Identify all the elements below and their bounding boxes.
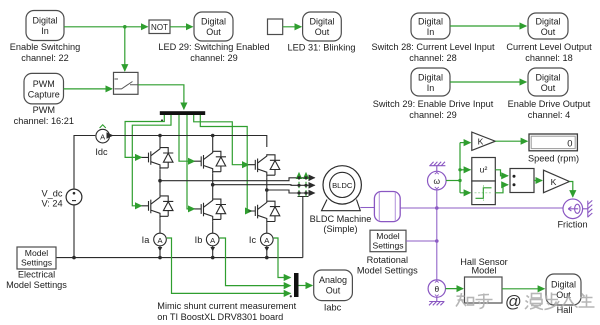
bus bar (gate demux)	[160, 111, 205, 115]
shaft vertical to theta sensor	[436, 190, 438, 280]
label Current Level Output	[506, 42, 592, 63]
sensor theta	[428, 280, 445, 297]
friction element	[563, 199, 583, 219]
svg-text:Settings: Settings	[21, 258, 52, 268]
wire u^2 to mux2	[495, 170, 508, 176]
wire Ib to mux	[220, 238, 291, 286]
svg-text:Digital: Digital	[551, 280, 576, 290]
svg-text:0: 0	[567, 137, 572, 148]
svg-text:In: In	[427, 27, 435, 37]
block Digital Out (LED 31)	[303, 12, 342, 41]
block NOT U1	[149, 20, 170, 34]
svg-text:Out: Out	[541, 27, 556, 37]
label Enable Drive Output	[508, 99, 591, 120]
node rail legA legB legC	[158, 256, 162, 260]
svg-text:Out: Out	[326, 286, 341, 296]
wire Ic to mux	[274, 238, 291, 278]
wire model settings to shaft	[406, 240, 437, 242]
svg-text:In: In	[427, 83, 435, 93]
block Digital In (Switch 28)	[411, 13, 450, 39]
node shaft theta branch	[435, 239, 439, 243]
port arrow Idc output	[111, 135, 113, 137]
svg-text:Digital: Digital	[32, 16, 57, 26]
svg-text:Model Settings: Model Settings	[6, 280, 67, 290]
transistor Q6	[248, 201, 280, 224]
svg-text:Friction: Friction	[557, 220, 587, 230]
block PWM Capture	[24, 73, 64, 104]
annotation dot near mux	[290, 295, 292, 297]
wire mux2 to gain K2	[534, 180, 542, 182]
BLDC machine body	[323, 166, 361, 204]
block Digital Out (Enable Drive)	[528, 68, 568, 96]
node phase taps	[158, 179, 162, 183]
DC top rail	[74, 136, 267, 190]
svg-text:V_dc: V_dc	[42, 189, 63, 199]
svg-text:K: K	[478, 137, 484, 147]
sensor omega	[428, 171, 447, 190]
svg-text:Out: Out	[541, 83, 556, 93]
ammeter Ib	[206, 233, 219, 246]
gain K2	[544, 170, 570, 193]
svg-text:BLDC Machine: BLDC Machine	[310, 214, 372, 224]
svg-text:Idc: Idc	[95, 147, 108, 157]
svg-text:Digital: Digital	[418, 17, 443, 27]
svg-text:channel: 22: channel: 22	[21, 53, 69, 63]
block Digital In (Switch 29)	[411, 68, 450, 96]
wire Switch28 in to out	[450, 25, 526, 27]
svg-text:Switch 29: Enable Drive Input: Switch 29: Enable Drive Input	[373, 99, 494, 109]
mechanical reference below theta	[429, 297, 444, 305]
svg-text:Rotational: Rotational	[367, 255, 408, 265]
block constant (blink source)	[268, 19, 283, 35]
svg-text:Ia: Ia	[142, 235, 151, 245]
svg-text:Analog: Analog	[319, 275, 347, 285]
wire Ia to mux	[167, 238, 291, 293]
svg-text:(Simple): (Simple)	[323, 224, 357, 234]
svg-text:Hall: Hall	[557, 305, 573, 315]
svg-text:θ: θ	[434, 284, 439, 294]
svg-text:channel: 4: channel: 4	[528, 110, 570, 120]
wire V_dc bottom to rail	[73, 205, 75, 258]
svg-text:Digital: Digital	[418, 73, 443, 83]
annotation dot near bus	[161, 119, 163, 121]
svg-text:channel: 16:21: channel: 16:21	[14, 116, 74, 126]
block Digital Out (LED 29)	[194, 12, 233, 41]
svg-text:BLDC: BLDC	[332, 181, 353, 190]
node shaft omega	[435, 206, 439, 210]
rotor inertia cylinder	[374, 192, 400, 222]
svg-text:PWM: PWM	[33, 105, 55, 115]
svg-text:LED 29: Switching Enabled: LED 29: Switching Enabled	[158, 42, 269, 52]
svg-text:Digital: Digital	[201, 17, 226, 27]
block Analog Out	[314, 270, 353, 301]
label BLDC Machine (Simple)	[310, 214, 372, 234]
mechanical reference above omega	[429, 162, 445, 172]
leg C vertical wires	[266, 177, 268, 258]
svg-text:channel: 28: channel: 28	[409, 53, 457, 63]
ammeter Ic	[261, 233, 274, 246]
svg-text:Model: Model	[471, 265, 496, 275]
junction on wire	[123, 25, 127, 29]
block u^2	[472, 158, 496, 182]
node top rail leg2	[211, 134, 215, 138]
svg-text:Settings: Settings	[372, 241, 403, 251]
svg-text:K: K	[551, 177, 557, 187]
label Switch 29	[373, 99, 494, 120]
svg-text:channel: 29: channel: 29	[409, 110, 457, 120]
label Hall Sensor Model	[460, 257, 508, 275]
svg-text:PWM: PWM	[33, 79, 55, 89]
label Enable Switching channel: 22	[10, 42, 80, 63]
svg-text:Ic: Ic	[249, 235, 257, 245]
block Digital Out (Current Level)	[528, 13, 568, 39]
label Mimic shunt	[157, 301, 296, 322]
phase line C	[267, 190, 315, 193]
transistor Q4	[142, 195, 174, 218]
phase line B	[213, 184, 315, 187]
wire quantizer to mux2	[495, 185, 508, 193]
wire gate 2 (bus to Q4 gate)	[132, 115, 171, 206]
transistor Q2	[194, 151, 226, 174]
wire K to speed display	[495, 140, 527, 142]
wire junction down to switch	[124, 27, 126, 71]
svg-text:Speed (rpm): Speed (rpm)	[528, 154, 579, 164]
transistor Q1	[142, 147, 174, 170]
transistor Q5	[194, 199, 226, 222]
svg-text:Model: Model	[25, 248, 48, 258]
sense tap dashed lines	[299, 175, 306, 197]
wire Switch29 in to out	[450, 81, 526, 83]
wire gate 1 (bus to Q1 gate)	[125, 115, 164, 157]
node model settings junction	[72, 256, 76, 260]
label LED 29	[158, 42, 269, 63]
label PWM channel	[14, 105, 74, 126]
svg-text:Electrical: Electrical	[18, 270, 55, 280]
transistor Q3	[248, 154, 280, 177]
block Digital In (Enable Switching)	[26, 11, 64, 41]
label Electrical Model Settings	[6, 270, 67, 291]
block mux2 (two-dot)	[510, 169, 534, 193]
svg-text:Ib: Ib	[195, 235, 203, 245]
block Model Settings electrical	[17, 247, 56, 269]
gain K rpm	[472, 132, 496, 150]
block Model Settings rotational	[370, 230, 406, 252]
svg-text:Current Level Output: Current Level Output	[506, 42, 592, 52]
phase line A	[160, 178, 315, 181]
node top rail leg1	[158, 134, 162, 138]
svg-text:V: 24: V: 24	[41, 199, 62, 209]
svg-text:u²: u²	[480, 165, 488, 175]
block Digital Out (Hall)	[546, 274, 581, 305]
wire hall model to digital out	[502, 288, 544, 290]
wire theta to hall model	[446, 288, 464, 290]
source V_dc	[66, 189, 82, 205]
wire gate 4 (bus to Q5 gate)	[187, 115, 195, 209]
label V_dc V:24	[41, 189, 62, 209]
svg-text:on TI BoostXL DRV8301 board: on TI BoostXL DRV8301 board	[157, 312, 283, 322]
svg-text:channel: 29: channel: 29	[190, 53, 238, 63]
ammeter Idc	[96, 125, 110, 143]
leg B vertical wires	[212, 136, 214, 258]
wire NOT to Digital Out	[170, 26, 193, 28]
block manual switch	[114, 72, 139, 94]
port arrows below ammeters	[158, 247, 163, 251]
svg-text:Enable Switching: Enable Switching	[10, 42, 80, 52]
svg-text:Out: Out	[315, 27, 330, 37]
wire gate 5 (bus to Q3 gate)	[194, 115, 249, 165]
svg-text:NOT: NOT	[151, 23, 168, 32]
ammeter Ia	[154, 233, 167, 246]
svg-text:channel: 18: channel: 18	[525, 53, 573, 63]
block quantizer	[472, 181, 496, 205]
svg-text:@: @	[505, 293, 522, 311]
friction wall	[583, 200, 593, 217]
svg-text:Switch 28: Current Level Input: Switch 28: Current Level Input	[371, 42, 495, 52]
svg-text:Digital: Digital	[535, 73, 560, 83]
mux Iabc bar	[294, 273, 299, 297]
wire omega to measurement tree	[446, 180, 460, 182]
svg-text:LED 31: Blinking: LED 31: Blinking	[288, 43, 356, 53]
shaft machine to rotor block	[360, 207, 374, 209]
watermark zhihu	[456, 293, 595, 310]
svg-text:Mimic shunt current measuremen: Mimic shunt current measurement	[157, 301, 296, 311]
display Speed (rpm)	[529, 134, 577, 151]
wire mux to Analog Out	[299, 285, 313, 287]
svg-text:Digital: Digital	[309, 17, 334, 27]
svg-text:Iabc: Iabc	[324, 303, 342, 313]
leg A vertical wires	[159, 136, 161, 258]
node sense taps	[297, 176, 300, 179]
BLDC machine pedestal	[322, 200, 361, 211]
svg-text:Model: Model	[376, 231, 399, 241]
wire Digital In to NOT	[64, 26, 148, 28]
wire gate 6 (bus to Q6 gate)	[200, 115, 247, 211]
wire constant to Digital Out	[283, 26, 302, 28]
shaft rotor to friction	[400, 207, 563, 209]
svg-text:Out: Out	[206, 27, 221, 37]
label Rotational Model Settings	[357, 255, 418, 276]
block Hall Sensor Model	[465, 277, 503, 303]
bottom rail	[56, 197, 309, 258]
svg-text:In: In	[41, 26, 49, 36]
wire switch to gate bus	[138, 85, 184, 109]
svg-text:Model Settings: Model Settings	[357, 266, 418, 276]
label Switch 28	[371, 42, 495, 63]
svg-text:Enable Drive Output: Enable Drive Output	[508, 99, 591, 109]
wire PWM Capture to switch	[64, 88, 113, 90]
wire K2 to friction	[569, 182, 572, 197]
svg-text:Digital: Digital	[535, 17, 560, 27]
svg-text:ω: ω	[434, 176, 441, 186]
svg-text:Capture: Capture	[28, 90, 60, 100]
wire gate 3 (bus to Q2 gate)	[179, 115, 195, 161]
